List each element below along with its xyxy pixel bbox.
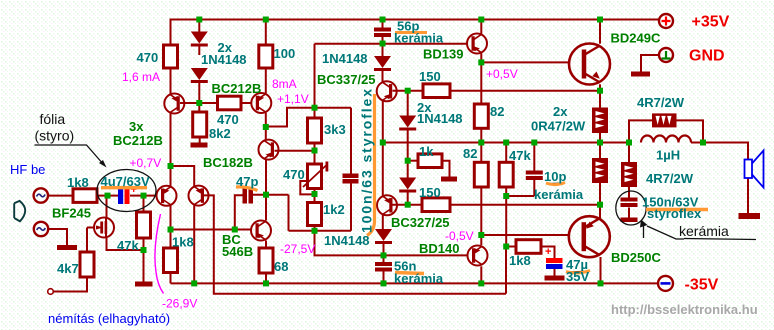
wire bias col to R1k xyxy=(408,160,418,162)
capacitor C 4u7/63V electrolytic xyxy=(118,184,137,204)
resistor R 4k7 (gate) xyxy=(80,252,94,277)
wire rail to 0R47l xyxy=(599,143,601,159)
transistor Q BD250C xyxy=(569,216,610,257)
wire BC182B emitter column xyxy=(265,159,267,195)
wire 100n lower lead xyxy=(350,183,352,231)
node 56n rail node xyxy=(381,280,387,286)
ground 47k mute ground xyxy=(135,282,153,287)
node output emitter node xyxy=(597,140,603,146)
svg-text:http://bsselektronika.hu: http://bsselektronika.hu xyxy=(611,302,758,317)
node BD250C rail node xyxy=(598,280,604,286)
wire 56n to bottom rail xyxy=(383,272,385,284)
resistor R 1k8 (feedback) xyxy=(516,240,541,254)
wire 82l to BD140 node xyxy=(480,187,482,235)
transistor Q BD139 xyxy=(467,34,487,54)
wire Q1 bottom to tail node xyxy=(170,205,172,230)
wire 3k3 top to 100n top xyxy=(315,107,352,109)
annotation arrow keramia xyxy=(644,226,685,239)
transistor Q BD249C xyxy=(569,44,610,85)
svg-text:100: 100 xyxy=(274,46,296,61)
signal source circle 1 xyxy=(34,188,48,202)
diode D3 1N4148 xyxy=(374,56,391,71)
svg-text:+: + xyxy=(545,246,551,258)
svg-text:1,6 mA: 1,6 mA xyxy=(122,70,160,84)
svg-text:470: 470 xyxy=(217,112,239,127)
node 82 rail node xyxy=(478,140,484,146)
wire 4u7 left plate lead xyxy=(108,195,119,197)
svg-text:1µH: 1µH xyxy=(656,148,680,163)
wire BC327 to D6 xyxy=(382,215,384,230)
resistor R 47k (feedback) xyxy=(499,162,513,187)
wire 3k3 to trimmer xyxy=(314,143,316,164)
wire D4 to D5 xyxy=(407,130,409,178)
node mirror link node xyxy=(168,163,174,169)
power symbol GND xyxy=(659,48,673,62)
svg-text:fólia: fólia xyxy=(40,111,66,127)
wire D5 to lower node xyxy=(407,192,409,205)
wire 0R47u to out rail xyxy=(599,133,601,143)
svg-text:-35V: -35V xyxy=(685,277,719,294)
wire BD140 to bottom rail xyxy=(480,266,482,283)
wire BD250C collector to rail xyxy=(600,257,602,283)
ground bias 1k ground xyxy=(441,177,457,182)
wire rail to 10p xyxy=(533,143,535,171)
svg-text:546B: 546B xyxy=(222,244,253,259)
svg-text:1k2: 1k2 xyxy=(323,202,345,217)
resistor R 100 xyxy=(259,45,273,68)
wire rail to speaker xyxy=(691,143,748,161)
svg-text:kerámia: kerámia xyxy=(394,31,444,46)
svg-text:35V: 35V xyxy=(566,269,589,284)
svg-text:47k: 47k xyxy=(117,238,139,253)
capacitor C 150n/63V xyxy=(621,198,638,208)
wire +35V top rail xyxy=(171,19,659,21)
wire down to 3k3 xyxy=(314,44,316,118)
capacitor C 10p xyxy=(526,171,543,181)
open terminal (mute input) xyxy=(48,289,54,295)
annotation underline keramia xyxy=(684,239,756,240)
resistor R 1k8 (tail) xyxy=(164,248,178,273)
node Q2 rail node xyxy=(191,280,197,286)
wire BC327 collector up xyxy=(382,143,384,196)
potentiometer 470 trimmer xyxy=(303,162,328,189)
svg-text:1k8: 1k8 xyxy=(509,253,531,268)
wire D2 to R8k2/base node xyxy=(198,83,200,112)
node top rail / D1 xyxy=(196,17,202,23)
diode D5 1N4148 xyxy=(399,178,416,193)
resistor R 4R7/2W (zobel) (power) xyxy=(621,162,637,187)
node 3k3 top node xyxy=(312,105,318,111)
svg-text:4k7: 4k7 xyxy=(57,261,79,276)
wire mute source to ground xyxy=(48,229,67,245)
svg-text:HF be: HF be xyxy=(10,162,45,177)
node 4u7 left node xyxy=(105,193,111,199)
wire FET gate lead xyxy=(87,227,95,229)
wire 47p right plate link xyxy=(253,194,289,196)
svg-text:3x: 3x xyxy=(129,119,144,134)
underline 56n xyxy=(395,273,424,274)
node tail node xyxy=(168,227,174,233)
wire 1k8 to bottom rail xyxy=(170,273,172,284)
wire BD139 to BD249C base xyxy=(481,61,569,63)
wire 1k8fb to 47u xyxy=(541,247,555,259)
svg-text:kerámia: kerámia xyxy=(394,271,444,286)
node BD139 emitter node xyxy=(478,59,484,65)
wire to Q1 base xyxy=(144,195,157,197)
transistor Q BC327/25 xyxy=(377,195,397,215)
capacitor C 56n xyxy=(375,262,392,272)
node 68 rail node xyxy=(263,280,269,286)
resistor R 470 (left current source) xyxy=(164,45,178,68)
wire 47k to ground xyxy=(143,238,145,282)
svg-text:-27,5V: -27,5V xyxy=(280,242,315,256)
underline 4u7 xyxy=(101,186,147,189)
wire rail to 4R7 low xyxy=(628,143,630,163)
wire 56p to D3 xyxy=(382,37,384,57)
diode D1 1N4148 xyxy=(191,32,208,47)
resistor R 1k2 xyxy=(308,203,322,226)
wire rail to R470 left xyxy=(170,19,172,46)
svg-text:1N4148: 1N4148 xyxy=(322,51,368,66)
svg-text:-26,9V: -26,9V xyxy=(162,297,197,311)
transistor Qmr BC212B (mirror right) xyxy=(251,93,271,113)
resistor R 82 (lower) xyxy=(474,162,488,187)
wire Q2 base / gnd-sense line xyxy=(203,195,506,293)
wire R8k2 to ground xyxy=(199,137,201,143)
capacitor C 47p xyxy=(243,189,254,204)
wire 1k2 to node xyxy=(314,226,316,231)
wire BC337 base to R150u xyxy=(393,90,424,92)
wire fb node to 1k8fb xyxy=(506,246,516,248)
wire FET gate to 4k7 xyxy=(86,228,88,253)
input connector HF xyxy=(14,201,25,221)
svg-text:BC212B: BC212B xyxy=(113,133,163,148)
svg-text:68: 68 xyxy=(274,259,288,274)
wire R470 to Qml xyxy=(170,68,172,94)
wire zobel top right leg xyxy=(677,120,704,142)
wire 4R7 to 150n xyxy=(628,187,630,198)
svg-text:styroflex: styroflex xyxy=(647,206,702,221)
capacitor C 100n/63 styroflex xyxy=(343,174,359,184)
svg-text:némítás (elhagyható): némítás (elhagyható) xyxy=(48,311,170,326)
svg-text:470: 470 xyxy=(283,167,305,182)
wire 82u to rail to 82l xyxy=(480,128,482,162)
svg-text:BC337/25: BC337/25 xyxy=(317,72,376,87)
wire source to 1k8in xyxy=(48,195,73,197)
resistor R 82 (upper) xyxy=(474,104,488,128)
annotation arrow folia/styro xyxy=(35,145,105,165)
wire 68 to rail xyxy=(265,273,267,283)
wire Qmr-collector to 3k3 top xyxy=(266,108,315,127)
svg-text:4R7/2W: 4R7/2W xyxy=(637,95,685,110)
ground under 8k2 xyxy=(191,143,208,148)
svg-text:2x: 2x xyxy=(553,104,568,119)
resistor R 47k (mute drain) xyxy=(137,212,151,238)
wire 10p bottom link xyxy=(506,195,534,197)
svg-text:82: 82 xyxy=(490,104,504,119)
resistor R 150 (lower bias) xyxy=(422,198,450,212)
wire node to 56n node xyxy=(315,231,384,256)
node 56n top node xyxy=(381,252,387,258)
annotation ellipse around 150n xyxy=(616,191,646,225)
wire D6 to 56n xyxy=(383,244,385,262)
capacitor C 56p xyxy=(374,28,391,38)
node zobel node xyxy=(626,140,632,146)
wire D1 to D2 xyxy=(198,47,200,56)
wire BD139 emitter column xyxy=(480,53,482,104)
wire node to 47k mute xyxy=(143,196,145,212)
wire R150u to Vbe node xyxy=(450,90,600,92)
wire node to BD250C emitter xyxy=(599,205,601,219)
node 47p/BC546B base node xyxy=(232,227,238,233)
svg-text:BF245: BF245 xyxy=(52,206,91,221)
svg-text:BD250C: BD250C xyxy=(611,250,661,265)
node bias top node xyxy=(405,88,411,94)
wire GND symbol lead xyxy=(641,55,659,72)
svg-text:BD140: BD140 xyxy=(419,241,459,256)
wire Qmr to BC182B xyxy=(265,113,267,140)
svg-text:4R7/2W: 4R7/2W xyxy=(646,171,694,186)
node VAS output node xyxy=(380,140,386,146)
resistor R 0R47/2W lower (power) xyxy=(592,158,608,183)
ground speaker ground xyxy=(739,213,761,219)
node 10p rail node xyxy=(531,140,537,146)
node L/R out node xyxy=(700,140,706,146)
diode D6 1N4148 xyxy=(375,229,392,244)
resistor R 68 xyxy=(259,248,273,273)
power symbol -35V xyxy=(658,276,673,291)
wire 4u7 right plate lead xyxy=(130,195,144,197)
underline 10p xyxy=(546,183,565,185)
ground 47u ground xyxy=(545,276,565,281)
wire trimmer to 1k2 xyxy=(314,189,316,203)
svg-text:1k: 1k xyxy=(419,144,434,159)
wire to BC546B collector xyxy=(265,195,267,221)
wire 56p node to 3k3 chain xyxy=(315,43,383,45)
wire tail wire y229 xyxy=(171,229,252,231)
underline styroflex (vertical) xyxy=(367,94,375,236)
node bias bottom node xyxy=(405,202,411,208)
wire BD249C collector to rail xyxy=(599,19,601,44)
resistor R 470 (mirror base) xyxy=(218,96,242,110)
node 47p right node xyxy=(263,192,269,198)
wire tail to 1k8 xyxy=(170,230,172,249)
wire rail to D1 xyxy=(198,19,200,33)
wire FET source to 47k node xyxy=(107,238,144,251)
wire BC337 to out-rail xyxy=(382,101,384,143)
wire 100n upper lead xyxy=(350,108,352,174)
annotation magenta curve -26,9V xyxy=(155,214,164,294)
resistor R 8k2 xyxy=(193,112,207,137)
wire D3 to BC337 xyxy=(382,71,384,82)
svg-text:+0,7V: +0,7V xyxy=(130,156,162,170)
wire R470h to Qmr base xyxy=(241,102,251,104)
resistor R 4R7/2W (parallel L) (power) xyxy=(652,113,677,127)
resistor R 0R47/2W upper (power) xyxy=(592,108,608,134)
transistor Qml BC212B (mirror left) xyxy=(164,94,184,114)
wire node to BD140 xyxy=(480,235,482,245)
wire output rail mid xyxy=(383,142,629,144)
svg-text:4u7/63V: 4u7/63V xyxy=(101,174,150,189)
node bias mid node xyxy=(405,158,411,164)
svg-text:(styro): (styro) xyxy=(35,128,75,144)
svg-text:150: 150 xyxy=(419,185,441,200)
wire rail to R100 xyxy=(265,19,267,46)
wire speaker to ground xyxy=(747,178,749,214)
wire to BD140 base xyxy=(384,254,468,256)
resistor R 3k3 xyxy=(308,118,322,143)
wire 1k2 node horizontal xyxy=(289,230,352,232)
power symbol +35V xyxy=(659,14,673,28)
wire Q2 bottom to rail xyxy=(193,206,195,284)
wire BC182B base to chain node xyxy=(275,150,315,152)
ground GND symbol ground xyxy=(631,72,650,77)
svg-text:BD139: BD139 xyxy=(423,47,463,62)
wire 4k7 to mute terminal xyxy=(53,277,87,292)
svg-text:82: 82 xyxy=(463,146,477,161)
wire Vbe node to 0R47u xyxy=(599,91,601,108)
wire rail to 47k fb xyxy=(505,143,507,163)
wire Qml base to R470h xyxy=(180,102,218,104)
wire 47p left plate to tail node xyxy=(235,195,243,229)
wire 150n to end bar xyxy=(628,208,630,218)
svg-text:BC327/25: BC327/25 xyxy=(391,215,450,230)
ground mute source ground xyxy=(57,245,77,250)
wire zobel top left leg xyxy=(629,120,652,142)
wire 47p node riser xyxy=(288,195,290,231)
svg-text:+35V: +35V xyxy=(692,14,730,31)
wire to BD139 base xyxy=(383,43,468,45)
svg-text:1k8: 1k8 xyxy=(172,235,194,250)
resistor R 150 (upper bias) xyxy=(423,84,450,98)
node top rail / 56p xyxy=(380,17,386,23)
wire bias col to D4 xyxy=(407,91,409,116)
node 4u7 right node xyxy=(141,193,147,199)
wire R1k to ground xyxy=(442,161,450,177)
wire rail to BD139 xyxy=(480,19,482,34)
svg-text:1k8: 1k8 xyxy=(67,175,89,190)
transistor Q2 BC212B (diff right) xyxy=(189,186,209,206)
wire BD249C emitter xyxy=(599,84,601,90)
svg-text:100n/63 styroflex: 100n/63 styroflex xyxy=(359,87,375,233)
capacitor C 47u/35V electrolytic xyxy=(546,258,563,269)
svg-text:0R47/2W: 0R47/2W xyxy=(531,119,586,134)
svg-text:3k3: 3k3 xyxy=(324,122,346,137)
wire 10p lower lead xyxy=(533,180,535,197)
svg-text:47p: 47p xyxy=(236,174,258,189)
underline 56p xyxy=(395,31,427,34)
wire R150l to lower Vbe node xyxy=(450,204,600,206)
transistor Q BD140 xyxy=(468,246,488,266)
underline 47p (diagonal) xyxy=(236,187,258,191)
svg-text:BD249C: BD249C xyxy=(611,31,661,46)
node feedback divider node xyxy=(503,244,509,250)
transistor Q BC546B xyxy=(251,221,271,241)
speaker xyxy=(745,151,764,188)
wire R100 to Qmr xyxy=(265,68,267,93)
svg-text:BC182B: BC182B xyxy=(203,155,253,170)
underline 150n/63V xyxy=(646,208,708,211)
node FET source node xyxy=(141,247,147,253)
svg-text:10p: 10p xyxy=(544,169,566,184)
signal source circle 2 (mute) xyxy=(34,222,48,236)
svg-text:kerámia: kerámia xyxy=(679,223,729,239)
transistor Q BC337/25 xyxy=(377,81,397,101)
node 3k3/trimmer node xyxy=(312,148,318,154)
annotation ellipse around 4u7 xyxy=(97,170,156,212)
wire Qml to Q1 column xyxy=(170,114,172,187)
svg-text:1N4148: 1N4148 xyxy=(324,233,370,248)
wire to BD250C base xyxy=(481,234,568,236)
wire rail to 56p xyxy=(382,19,384,28)
node top rail / BD139 xyxy=(478,17,484,23)
wire 47u to ground xyxy=(554,269,556,276)
wire BC327 base to R150l xyxy=(393,204,423,206)
wire BC546B emitter to 68 xyxy=(265,241,267,249)
transistor Q1 BC212B (diff left) xyxy=(157,186,177,206)
wire 47k to fb node xyxy=(505,187,507,247)
150n end terminal bar xyxy=(621,218,638,223)
node 47k/10p bottom node xyxy=(503,193,509,199)
svg-text:8k2: 8k2 xyxy=(209,126,231,141)
diode D2 1N4148 xyxy=(191,68,208,83)
transistor Q BC182B xyxy=(259,140,279,160)
svg-text:8mA: 8mA xyxy=(272,77,297,91)
svg-text:BC212B: BC212B xyxy=(212,81,262,96)
node BD250C base node xyxy=(478,232,484,238)
node top rail / BD249C xyxy=(597,17,603,23)
wire FET drain to node xyxy=(106,196,108,218)
inductor L1 1uH xyxy=(641,136,691,143)
svg-text:GND: GND xyxy=(689,48,725,65)
node 56p / BD139 base node xyxy=(380,41,386,47)
svg-text:470: 470 xyxy=(137,50,159,65)
transistor BF245 JFET xyxy=(94,218,114,238)
underline 47u xyxy=(566,271,590,274)
node upper Vbe node xyxy=(597,88,603,94)
wire x xyxy=(314,230,316,232)
node lower Vbe node xyxy=(597,202,603,208)
node BD140 rail node xyxy=(478,280,484,286)
node mirror base node xyxy=(196,100,202,106)
wire -35V bottom rail xyxy=(171,282,658,284)
wire trimmer wiper bend xyxy=(300,181,314,194)
svg-text:+0,5V: +0,5V xyxy=(486,67,518,81)
svg-text:+1,1V: +1,1V xyxy=(277,92,309,106)
resistor R 1k8 (input) xyxy=(73,189,97,203)
wire 0R47l to lower node xyxy=(599,183,601,205)
wire 1k8in to cap 4u7 xyxy=(97,195,108,197)
node Qmr collector node xyxy=(263,124,269,130)
svg-text:1N4148: 1N4148 xyxy=(417,111,463,126)
node 47k fb rail node xyxy=(503,140,509,146)
svg-text:150: 150 xyxy=(419,69,441,84)
wire mirror link to Q2 top xyxy=(171,166,195,186)
svg-text:kerámia: kerámia xyxy=(534,187,584,202)
svg-text:1N4148: 1N4148 xyxy=(201,52,247,67)
wire feedback gnd riser xyxy=(505,247,507,294)
svg-text:47k: 47k xyxy=(509,148,531,163)
diode D4 1N4148 xyxy=(399,116,416,131)
node trimmer wiper node xyxy=(312,191,318,197)
node top rail / R100 xyxy=(263,17,269,23)
resistor R 1k (bias) xyxy=(418,154,442,168)
node 1k2 bottom node xyxy=(312,228,318,234)
